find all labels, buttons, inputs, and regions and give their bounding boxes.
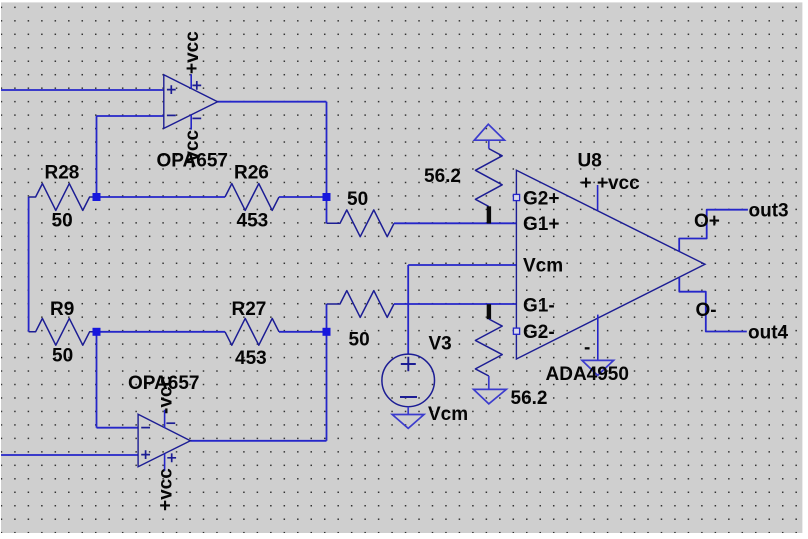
V3 - marker — [400, 396, 417, 398]
U8 G2- port square — [513, 328, 519, 334]
op-amp OPA657 bottom — [138, 414, 190, 467]
svg-text:O+: O+ — [694, 211, 720, 232]
svg-text:G2+: G2+ — [523, 188, 559, 209]
wire node B down to 50 — [326, 197, 328, 223]
svg-text:O-: O- — [696, 300, 717, 321]
resistor 56.2 top — [475, 149, 502, 207]
svg-text:-: - — [584, 338, 590, 359]
wire node D up to 50 — [326, 304, 328, 332]
V3 bottom lead — [407, 407, 409, 415]
wire bottom -input feedback horizontal — [97, 427, 139, 429]
bottom op-amp -supply pin — [164, 410, 166, 428]
page margin strips — [0, 0, 808, 2]
node A junction — [93, 193, 101, 201]
svg-text:G1-: G1- — [523, 295, 555, 316]
U8 G2+ port square — [513, 194, 519, 200]
svg-text:+vcc: +vcc — [182, 31, 203, 74]
top op-amp +supply pin — [190, 74, 192, 88]
top op-amp + input marker — [167, 85, 176, 94]
Vcm flag below V3 — [392, 415, 424, 429]
wire output down to node B — [326, 102, 328, 197]
node C junction — [93, 328, 101, 336]
svg-text:G1+: G1+ — [523, 214, 559, 235]
resistor 50 top middle — [327, 210, 395, 237]
svg-text:G2-: G2- — [523, 322, 555, 343]
svg-text:50: 50 — [52, 346, 73, 367]
wire 50 to G1+ pin — [394, 222, 516, 224]
wire R26 to node B — [279, 196, 327, 198]
voltage source V3 — [382, 354, 435, 407]
bottom op-amp -supply marker — [166, 422, 175, 424]
bottom op-amp - input marker — [141, 427, 150, 429]
wire left vertical between R28 and R9 — [28, 197, 30, 332]
svg-text:50: 50 — [52, 211, 73, 232]
resistor R28 — [29, 184, 97, 211]
wire 50 to G1- pin — [394, 303, 516, 305]
wire output up to node D — [326, 332, 328, 441]
bottom op-amp +supply pin — [164, 454, 166, 471]
black wire segment top — [487, 206, 491, 223]
svg-text:+ +vcc: + +vcc — [581, 173, 641, 194]
top op-amp -supply marker — [192, 117, 201, 119]
svg-text:-vcc: -vcc — [156, 376, 177, 414]
ground flag below bottom 56.2 — [474, 389, 507, 404]
svg-text:V3: V3 — [429, 334, 452, 355]
wire top -input feedback horizontal — [97, 115, 164, 117]
node D junction — [323, 328, 331, 336]
svg-text:56.2: 56.2 — [424, 166, 461, 187]
wire bottom opamp output — [190, 440, 326, 442]
resistor 50 bottom middle — [327, 291, 395, 318]
wire top +input — [0, 89, 164, 91]
wire top opamp output — [218, 101, 327, 103]
node B junction — [323, 193, 331, 201]
wire V3 plus lead vertical — [407, 265, 409, 354]
op-amp U8 ADA4950 body — [516, 170, 705, 359]
top op-amp -supply pin — [190, 115, 192, 130]
svg-text:-vcc: -vcc — [182, 130, 203, 168]
svg-text:453: 453 — [235, 348, 267, 369]
resistor R26 — [225, 184, 279, 211]
svg-text:R27: R27 — [232, 299, 267, 320]
svg-text:R26: R26 — [234, 163, 269, 184]
resistor 56.2 bottom — [475, 319, 502, 376]
wire R27 to node D — [279, 331, 327, 333]
svg-text:out4: out4 — [748, 323, 789, 344]
svg-text:ADA4950: ADA4950 — [546, 364, 629, 385]
power flag above top 56.2 — [474, 124, 504, 140]
wire bottom +input — [0, 454, 138, 456]
svg-text:R9: R9 — [50, 299, 74, 320]
V3 + marker — [401, 357, 416, 371]
svg-text:U8: U8 — [578, 151, 602, 172]
wire feedback vertical bottom — [96, 332, 98, 428]
svg-text:50: 50 — [347, 189, 368, 210]
top op-amp - input marker — [167, 114, 176, 116]
wire node A to R26 — [97, 196, 226, 198]
wire O+ output step to out3 — [679, 210, 748, 252]
wire O- output step to out4 — [679, 278, 747, 332]
resistor R27 — [225, 318, 279, 345]
ground flag below U8 — [582, 360, 614, 375]
U8 -supply pin — [597, 315, 599, 361]
black wire segment bottom — [487, 304, 491, 319]
wire Vcm to ADA pin — [408, 264, 516, 266]
svg-text:R28: R28 — [45, 163, 80, 184]
wire node C to R27 — [97, 331, 226, 333]
svg-text:out3: out3 — [749, 201, 789, 222]
bottom op-amp +supply marker — [167, 453, 176, 462]
svg-text:56.2: 56.2 — [511, 388, 548, 409]
svg-text:Vcm: Vcm — [523, 256, 563, 277]
bottom op-amp + input marker — [141, 450, 150, 459]
wire feedback vertical top — [96, 116, 98, 197]
U8 +supply pin — [597, 185, 599, 211]
svg-text:+vcc: +vcc — [156, 468, 177, 511]
svg-text:Vcm: Vcm — [428, 404, 468, 425]
top op-amp +supply marker — [192, 81, 201, 90]
resistor R9 — [29, 318, 97, 345]
svg-text:453: 453 — [237, 211, 269, 232]
svg-text:50: 50 — [349, 330, 370, 351]
op-amp OPA657 top — [164, 75, 218, 129]
